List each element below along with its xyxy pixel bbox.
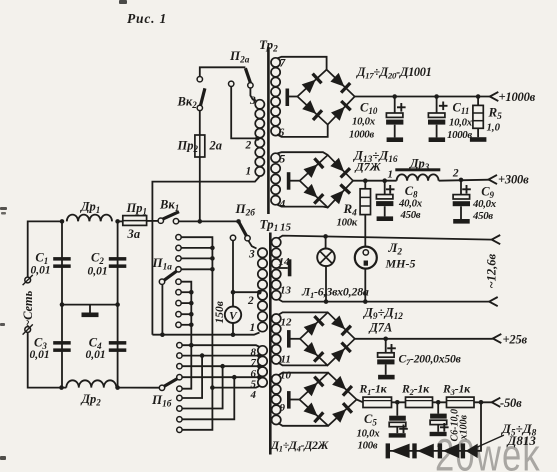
output ~12,6в upper: [492, 235, 501, 244]
svg-text:1: 1: [388, 169, 394, 181]
zener diode Д6: [412, 443, 416, 458]
node C8: [382, 178, 387, 183]
capacitor C1: [53, 257, 70, 261]
svg-text:11: 11: [281, 354, 291, 366]
wire pin4 to bridge: [277, 205, 328, 208]
node top-A: [60, 219, 65, 224]
zener diode Д5: [386, 443, 390, 458]
svg-text:Л2: Л2: [388, 240, 403, 258]
svg-text:0,01: 0,01: [88, 266, 108, 278]
scan speck left1: [0, 207, 7, 210]
svg-text:4: 4: [250, 389, 257, 401]
capacitor C4: [109, 341, 127, 345]
wire C1-C3 vertical: [61, 221, 63, 387]
svg-text:10,0х: 10,0х: [449, 117, 473, 129]
node output -50в: [479, 400, 484, 405]
wire П1а lower contact: [181, 313, 191, 315]
node mid-A: [60, 302, 65, 307]
switch Вк1: [158, 218, 163, 223]
switch П1а pivot: [159, 279, 164, 284]
svg-text:Пр1: Пр1: [126, 201, 147, 217]
svg-text:Др1: Др1: [80, 200, 100, 216]
resistor R2: [406, 397, 433, 407]
svg-text:0,01: 0,01: [31, 265, 51, 277]
wire voltmeter bottom: [232, 323, 234, 335]
svg-text:2а: 2а: [209, 139, 223, 153]
wire Вк1-П2б: [179, 220, 239, 222]
Тр2 secondary 7-6: [271, 58, 280, 67]
svg-text:1,0: 1,0: [487, 122, 501, 134]
svg-text:R3-1к: R3-1к: [442, 382, 471, 398]
svg-text:1: 1: [250, 322, 256, 334]
transformer Тр2 core: [267, 47, 270, 214]
svg-text:0,01: 0,01: [30, 349, 50, 361]
node Пр2 bottom junction: [198, 219, 203, 224]
scan speck left2: [0, 323, 5, 326]
fuse Пр2: [195, 135, 205, 157]
Тр1 secondary 12-11: [272, 314, 281, 323]
wire pin14 chassis: [279, 267, 288, 269]
switch П2б lever: [239, 223, 246, 237]
output -50в: [492, 398, 501, 407]
wire pin12: [278, 312, 328, 315]
wire tap7: [182, 355, 258, 357]
svg-text:1000в: 1000в: [349, 129, 374, 141]
svg-text:9: 9: [280, 402, 286, 414]
capacitor C6: [437, 402, 439, 413]
svg-text:Др3: Др3: [409, 157, 430, 173]
capacitor C7: [385, 339, 387, 353]
svg-text:R5: R5: [488, 105, 503, 123]
switch П1а lever: [164, 271, 178, 281]
bridge rectifier Д17-Д20: [297, 70, 354, 125]
lamp Л1: [323, 234, 328, 239]
wire pin15: [278, 236, 492, 240]
Тр1 primary lower: [258, 346, 267, 355]
wire tap8: [182, 345, 260, 347]
scan speck left3: [0, 456, 6, 460]
wire tap4: [212, 386, 259, 388]
wire pin6 to bridge: [277, 125, 328, 137]
wire voltmeter branch: [232, 241, 234, 307]
svg-text:~Сеть: ~Сеть: [21, 290, 35, 327]
svg-text:Др2: Др2: [81, 392, 102, 408]
capacitor C5: [396, 402, 398, 415]
wire bus234: [182, 377, 234, 419]
node mid-B: [115, 302, 120, 307]
wire П1а contact: [181, 247, 212, 249]
scan speck top: [119, 0, 127, 4]
wire to Пр1: [118, 220, 123, 222]
resistor R5: [477, 97, 479, 106]
Тр1 secondary 10-9: [272, 375, 281, 384]
Тр1 primary upper: [258, 248, 267, 257]
svg-text:10,0х: 10,0х: [357, 428, 381, 440]
svg-text:Рис. 1: Рис. 1: [127, 11, 167, 26]
choke Др2: [66, 380, 116, 387]
node П2б pivot: [236, 219, 241, 224]
output ~12,6в lower: [489, 297, 498, 306]
wire rail to П1б: [116, 387, 159, 389]
wire Др3 to +300в: [439, 180, 490, 181]
svg-text:R2-1к: R2-1к: [401, 382, 430, 398]
node П1а pivot branch: [160, 332, 165, 337]
svg-text:4: 4: [279, 199, 286, 211]
wire П1а contact: [181, 268, 212, 270]
svg-text:С5: С5: [364, 412, 377, 428]
svg-text:15: 15: [280, 222, 292, 234]
node bot-B: [115, 385, 120, 390]
svg-text:13: 13: [280, 285, 292, 297]
node tap2 branch: [231, 290, 236, 295]
wire Вк2-Пр2: [199, 111, 201, 136]
svg-text:П2б: П2б: [235, 201, 256, 219]
node tap2: [257, 290, 262, 295]
node voltmeter bottom: [231, 332, 236, 337]
Тр1 secondary 15-13: [272, 238, 281, 247]
capacitor C10: [394, 97, 396, 114]
svg-text:Д1÷Д4-Д2Ж: Д1÷Д4-Д2Ж: [270, 438, 330, 454]
wire П2б to tap3: [249, 241, 257, 249]
wire П1а upper bus: [181, 237, 212, 430]
П1б contacts: [177, 343, 182, 348]
capacitor C11: [436, 97, 438, 114]
wire mains upper: [28, 221, 62, 276]
svg-text:МН-5: МН-5: [385, 257, 416, 271]
lamp Л2 neon: [364, 247, 366, 269]
switch П1б lever: [164, 378, 178, 386]
bridge rectifier Д13-Д16: [300, 155, 353, 208]
wire П2а left contact to tap2: [231, 87, 256, 139]
wire П1а lower contact: [181, 302, 191, 304]
svg-text:450в: 450в: [400, 209, 421, 221]
mains terminal upper: [25, 277, 31, 283]
svg-text:Д9÷Д12: Д9÷Д12: [363, 305, 403, 323]
svg-text:10: 10: [280, 370, 292, 382]
wire pin7 to bridge: [277, 57, 327, 70]
wire tap6: [182, 365, 258, 367]
switch П2б contacts: [230, 235, 235, 240]
svg-text:40,0х: 40,0х: [398, 198, 423, 210]
svg-text:П2а: П2а: [229, 48, 250, 66]
svg-text:12: 12: [281, 317, 293, 329]
resistor R1: [363, 397, 392, 407]
Тр2 primary winding: [255, 100, 264, 109]
node C7: [383, 337, 388, 342]
node C11: [434, 94, 439, 99]
wire Вк2 riser top: [200, 67, 246, 76]
П1а upper contacts: [176, 235, 181, 240]
output +300в: [489, 175, 498, 184]
svg-text:С10: С10: [360, 101, 378, 117]
wire tap2: [233, 291, 259, 293]
wire mains lower: [28, 333, 67, 388]
wire bridge3 minus: [291, 338, 301, 340]
fuse Пр1: [123, 216, 147, 226]
svg-text:2: 2: [245, 140, 252, 152]
resistor R3: [447, 397, 475, 407]
svg-text:R1-1к: R1-1к: [359, 382, 388, 398]
wire bridge4 minus: [291, 399, 300, 401]
chassis bridge2: [287, 172, 291, 190]
choke Др1: [67, 215, 112, 222]
chassis bridge1: [286, 89, 290, 107]
node R4: [363, 178, 368, 183]
svg-text:+300в: +300в: [498, 173, 529, 187]
wire +300в rail: [353, 180, 397, 182]
mains terminal lower: [25, 327, 31, 333]
wire П1а contact: [181, 257, 212, 259]
svg-text:100в: 100в: [358, 440, 378, 452]
svg-text:3: 3: [249, 95, 256, 107]
node lower bus tap8: [189, 343, 194, 348]
svg-text:5: 5: [280, 154, 286, 166]
svg-text:С11: С11: [453, 101, 470, 117]
chassis bridge4: [287, 391, 291, 409]
node C9: [459, 178, 464, 183]
svg-text:Вк1: Вк1: [159, 198, 179, 214]
capacitor C9: [460, 180, 462, 195]
resistor R4: [364, 181, 366, 189]
wire П1а lower contact: [181, 291, 191, 293]
Тр2 secondary 5-4: [271, 153, 280, 162]
svg-text:С2: С2: [91, 251, 104, 267]
svg-text:2: 2: [247, 295, 254, 307]
svg-text:0,01: 0,01: [86, 349, 106, 361]
output +1000в: [490, 92, 499, 101]
wire Пр1-Вк1: [147, 220, 158, 222]
capacitor C3: [53, 341, 70, 345]
node R1-R2: [395, 400, 400, 405]
node Тр2 tap2: [255, 136, 260, 141]
svg-text:Д17÷Д20-Д1001: Д17÷Д20-Д1001: [356, 65, 431, 81]
svg-text:2: 2: [452, 168, 459, 180]
transformer Тр1 core: [269, 233, 272, 455]
switch П2а contacts: [229, 81, 234, 86]
zener diode Д8: [461, 443, 465, 458]
wire zener rail: [388, 402, 481, 451]
svg-text:За: За: [127, 227, 141, 241]
voltmeter V: [225, 307, 241, 323]
choke Др3: [395, 168, 440, 171]
svg-text:Д813: Д813: [507, 433, 537, 448]
bridge rectifier Д9-Д12: [300, 312, 355, 365]
wire pin9: [278, 423, 328, 426]
switch П2а lever: [245, 68, 251, 86]
output +25в: [493, 334, 502, 343]
bridge rectifier Д1-Д4: [299, 373, 356, 426]
svg-text:40,0х: 40,0х: [472, 198, 497, 210]
wire bus223: [182, 366, 222, 408]
wire bus202: [182, 356, 202, 398]
wire +25в rail: [355, 338, 493, 340]
switch Вк2: [197, 77, 202, 82]
wire pin11: [278, 363, 328, 366]
wire Пр2 down: [199, 157, 201, 221]
wire pin10: [278, 373, 328, 376]
switch П1б pivot: [159, 385, 164, 390]
svg-text:П1б: П1б: [151, 392, 172, 410]
node C10: [392, 94, 397, 99]
svg-text:+1000в: +1000в: [499, 90, 536, 104]
svg-text:7: 7: [280, 58, 287, 70]
wire bridge2 minus: [290, 180, 300, 182]
wire middle rail: [62, 304, 118, 306]
svg-text:10,0х: 10,0х: [352, 116, 376, 128]
wire pin5 to bridge: [277, 152, 328, 155]
svg-text:V: V: [229, 310, 238, 322]
svg-text:Л1-6,3вх0,28а: Л1-6,3вх0,28а: [301, 285, 369, 301]
capacitor C8: [384, 181, 386, 195]
pointer line Д5-Д8: [473, 435, 504, 449]
wire pin13: [278, 299, 489, 302]
node R5: [476, 94, 481, 99]
wire П1а lower contact: [181, 324, 191, 326]
svg-text:Вк2: Вк2: [177, 95, 198, 111]
chassis bridge3: [287, 330, 291, 348]
svg-text:~12,6в: ~12,6в: [485, 254, 499, 289]
svg-text:-50в: -50в: [500, 396, 522, 410]
svg-text:100к: 100к: [337, 217, 358, 229]
wire П2а right contact to tap3: [250, 88, 256, 101]
svg-text:450в: 450в: [472, 210, 493, 222]
П1а lower contacts: [176, 279, 181, 284]
svg-text:С7-200,0х50в: С7-200,0х50в: [399, 353, 461, 368]
zener diode Д7: [438, 443, 442, 458]
wire Тр2 tap1 to rail: [152, 177, 259, 335]
svg-text:Д7А: Д7А: [369, 321, 393, 335]
node R2-R3: [436, 400, 441, 405]
svg-text:1: 1: [246, 166, 252, 178]
svg-text:х100в: х100в: [459, 415, 470, 441]
svg-text:П1а: П1а: [152, 255, 173, 273]
svg-text:150в: 150в: [214, 301, 226, 323]
wire П1а lower bus: [181, 282, 191, 389]
svg-text:+25в: +25в: [503, 333, 528, 347]
capacitor C2: [109, 257, 127, 261]
wire C2-C4 vertical: [117, 221, 119, 387]
wire -50в rail: [357, 400, 363, 403]
svg-text:3: 3: [248, 249, 255, 261]
node top-B: [115, 219, 120, 224]
node bot-A: [59, 385, 64, 390]
wire neutral rail: [152, 333, 259, 335]
svg-text:Д7Ж: Д7Ж: [355, 160, 382, 174]
svg-text:Тр1: Тр1: [260, 217, 279, 235]
wire bridge1 minus: [289, 96, 298, 98]
svg-text:1000в: 1000в: [447, 129, 472, 141]
wire +1000в rail: [355, 96, 490, 98]
ground middle: [89, 305, 91, 313]
wire tap5: [182, 376, 258, 378]
